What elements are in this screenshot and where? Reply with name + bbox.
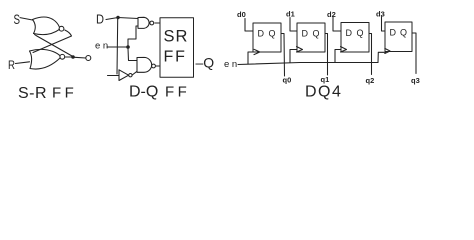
svg-text:Q: Q xyxy=(400,28,407,38)
wire d3 to FF4 xyxy=(382,17,386,32)
svg-text:D: D xyxy=(96,12,104,27)
flip-flop FF3 xyxy=(341,23,369,53)
wire clock stub FF2 xyxy=(290,50,297,63)
wire D to gate U3 xyxy=(106,18,138,20)
svg-text:S: S xyxy=(14,11,21,27)
svg-text:–Q: –Q xyxy=(196,55,215,71)
svg-text:Q: Q xyxy=(357,28,364,38)
wire inverter input xyxy=(108,75,120,77)
junction en node xyxy=(126,45,130,49)
wire U1 output to U2 input (cross) xyxy=(33,30,72,53)
flip-flop FF4 xyxy=(385,22,412,52)
svg-text:FF: FF xyxy=(52,85,77,102)
wire S to gate U1 xyxy=(20,18,33,20)
SR FF box U6 xyxy=(160,18,194,77)
wire en up to gate U3 lower input xyxy=(128,26,138,46)
svg-text:D: D xyxy=(305,84,317,101)
svg-text:S-R: S-R xyxy=(18,85,47,101)
svg-text:FF: FF xyxy=(164,49,187,66)
wire clock stub FF3 xyxy=(335,50,341,63)
gate U2 NOR (bottom) xyxy=(30,49,65,69)
svg-text:Q: Q xyxy=(313,29,320,39)
wire d2 to FF3 xyxy=(333,17,341,31)
svg-text:SR: SR xyxy=(164,28,189,46)
wire Q FF3 to q2 xyxy=(369,34,372,75)
inverter U4 xyxy=(119,70,132,81)
svg-text:e n: e n xyxy=(224,59,237,70)
svg-text:d2: d2 xyxy=(327,10,336,19)
clock chevron FF1 xyxy=(254,49,260,54)
wire clock stub FF1 xyxy=(248,52,255,64)
svg-text:D: D xyxy=(258,29,265,39)
svg-text:D: D xyxy=(390,28,397,38)
wire U4 to gate U5 lower input xyxy=(132,71,137,75)
terminal Q (open circle) xyxy=(86,56,91,61)
svg-text:d3: d3 xyxy=(376,10,385,19)
svg-text:D: D xyxy=(302,29,309,39)
wire en down to gate U5 upper input xyxy=(128,49,137,61)
svg-text:FF: FF xyxy=(165,84,190,101)
junction Q node xyxy=(71,55,75,59)
svg-text:4: 4 xyxy=(332,84,341,101)
svg-text:Q: Q xyxy=(318,84,330,101)
gate U1 NOR (top) xyxy=(33,17,64,35)
svg-text:D: D xyxy=(346,28,353,38)
wire U5 to box xyxy=(156,65,160,67)
svg-text:D-Q: D-Q xyxy=(129,84,158,101)
wire d0 to FF1 xyxy=(245,19,253,32)
gate U3 AND (top) xyxy=(138,17,154,28)
wire junction to U1 lower input (cross) xyxy=(35,35,73,57)
svg-text:q3: q3 xyxy=(411,76,420,85)
svg-text:d0: d0 xyxy=(237,10,246,19)
wire d1 to FF2 xyxy=(290,18,297,32)
flip-flop FF2 xyxy=(297,23,325,52)
svg-text:e n: e n xyxy=(95,41,108,52)
wire en bus xyxy=(238,63,378,65)
wire R to gate U2 xyxy=(16,62,30,64)
clock chevron FF4 xyxy=(385,48,390,53)
wire junction to output terminal xyxy=(75,56,86,59)
svg-text:Q: Q xyxy=(269,29,276,39)
wire D junction down to inverter xyxy=(116,19,119,74)
wire Q FF1 to q0 xyxy=(281,34,285,77)
wire Q FF2 to q1 xyxy=(325,34,328,76)
wire U3 to box xyxy=(155,22,160,24)
svg-text:q0: q0 xyxy=(283,76,292,85)
svg-text:q2: q2 xyxy=(366,76,375,85)
wire U2 output to junction xyxy=(65,56,71,58)
clock chevron FF2 xyxy=(297,47,303,53)
flip-flop FF1 xyxy=(253,23,281,52)
clock chevron FF3 xyxy=(341,47,347,53)
wire clock stub FF4 xyxy=(378,52,386,62)
gate U5 AND (bottom) xyxy=(137,57,155,72)
wire Q FF4 to q3 xyxy=(412,33,416,74)
junction D node xyxy=(116,16,119,19)
wire en to junction xyxy=(107,46,127,48)
svg-text:R: R xyxy=(8,58,15,72)
